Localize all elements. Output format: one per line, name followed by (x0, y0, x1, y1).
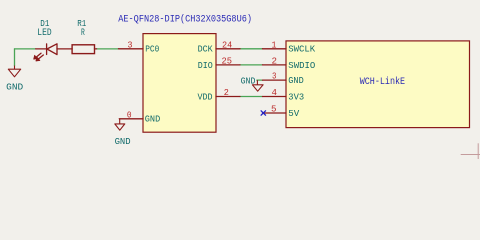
svg-text:3: 3 (272, 71, 277, 82)
svg-text:2: 2 (272, 55, 278, 66)
svg-text:0: 0 (127, 109, 132, 120)
svg-text:GND: GND (241, 76, 256, 86)
svg-text:25: 25 (222, 55, 233, 66)
svg-text:GND: GND (288, 76, 303, 86)
svg-text:AE-QFN28-DIP(CH32X035G8U6): AE-QFN28-DIP(CH32X035G8U6) (118, 14, 252, 26)
svg-text:1: 1 (272, 39, 277, 50)
svg-text:2: 2 (224, 87, 229, 98)
svg-text:DCK: DCK (198, 45, 214, 55)
svg-text:SWCLK: SWCLK (288, 45, 315, 55)
svg-text:GND: GND (115, 137, 131, 147)
svg-text:VDD: VDD (198, 92, 213, 102)
svg-text:24: 24 (222, 39, 232, 50)
svg-text:GND: GND (145, 115, 160, 125)
svg-text:GND: GND (6, 83, 23, 93)
svg-text:3: 3 (128, 39, 133, 50)
svg-text:SWDIO: SWDIO (288, 61, 315, 71)
svg-text:PC0: PC0 (145, 45, 159, 55)
svg-text:3V3: 3V3 (288, 92, 304, 102)
svg-text:R: R (81, 27, 85, 38)
svg-text:DIO: DIO (198, 61, 213, 71)
svg-text:WCH-LinkE: WCH-LinkE (360, 76, 406, 87)
svg-text:LED: LED (37, 27, 51, 38)
svg-text:5V: 5V (288, 109, 300, 119)
svg-text:5: 5 (271, 103, 277, 114)
svg-text:4: 4 (272, 87, 278, 98)
